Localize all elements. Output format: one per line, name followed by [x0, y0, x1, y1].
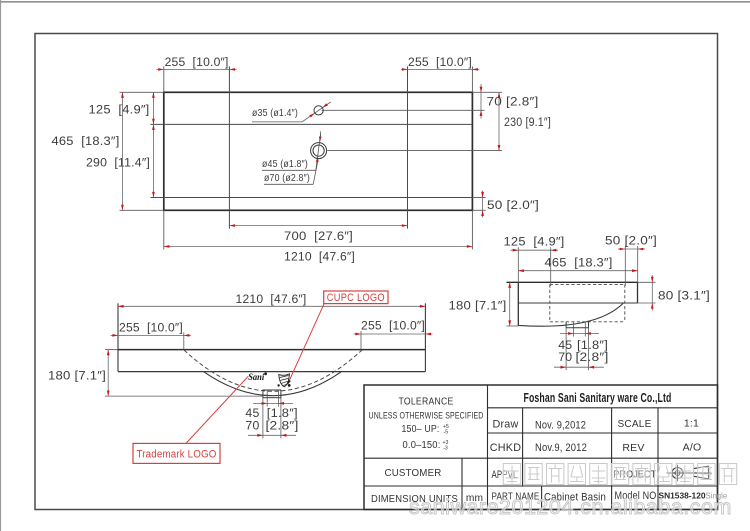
faucet leader diagonal [302, 102, 331, 122]
vertical divider after Draw [522, 408, 524, 486]
side dim 465 line [518, 270, 637, 272]
svg-text:70 [2.8″]: 70 [2.8″] [487, 95, 539, 109]
title block texts [369, 390, 728, 505]
side 125 right ext [550, 247, 552, 286]
projection symbol target outer circle [672, 468, 683, 479]
side hidden bowl dashed left [549, 284, 551, 321]
dim 125/290 line [152, 92, 154, 197]
svg-text:290 [11.4″]: 290 [11.4″] [86, 156, 150, 170]
svg-text:SCALE: SCALE [618, 418, 652, 430]
svg-text:125 [4.9″]: 125 [4.9″] [89, 103, 150, 117]
title block outer border [364, 385, 718, 510]
side drain box [565, 322, 567, 328]
CUPC shield mark [279, 374, 290, 387]
side hidden bowl dashed right [624, 284, 626, 321]
svg-text:465 [18.3″]: 465 [18.3″] [545, 255, 613, 269]
watermarks [409, 464, 737, 520]
dim 255 top-left line [157, 68, 237, 70]
shield bottom dots [277, 384, 279, 386]
trademark registered circle [264, 372, 267, 375]
svg-text:REV: REV [622, 442, 644, 454]
side 80 ext lines [638, 281, 656, 283]
svg-text:A/O: A/O [683, 442, 702, 454]
front dim 255 right line [354, 333, 433, 335]
dim 700 line [229, 225, 407, 227]
front 255 right ext [360, 331, 362, 350]
svg-text:70: 70 [558, 350, 572, 364]
photo top edge [0, 1, 750, 3]
projection symbol vertical crosshair [677, 465, 679, 481]
side dim 50 line [618, 248, 645, 250]
side dim 180 line [509, 282, 511, 326]
extension line above left corner [163, 66, 165, 92]
svg-text:ø45 (ø1.8″): ø45 (ø1.8″) [262, 159, 308, 170]
side 180 bottom extension [507, 325, 519, 327]
front bowl visible bottom (solid arc) [204, 372, 341, 396]
Trademark LOGO red box [133, 443, 220, 463]
drain o70 leader [313, 161, 318, 184]
svg-text:150– UP:: 150– UP: [402, 424, 440, 435]
projection symbol [667, 465, 712, 481]
front dim 180 line [107, 350, 109, 397]
extension line below right corner [471, 210, 473, 249]
plan holes and leaders [252, 102, 331, 184]
svg-text:TOLERANCE: TOLERANCE [399, 395, 454, 407]
side dim 70 line [554, 366, 604, 368]
extension line below left corner [163, 210, 165, 249]
front bottom extension line (180 dim) [105, 395, 263, 397]
side left edge extension up [517, 247, 519, 282]
title block horizontal line under company header [488, 407, 718, 409]
projection symbol centerline [667, 472, 712, 474]
projection symbol cone [694, 466, 709, 479]
svg-text:saniware201204.cn.alibaba.com: saniware201204.cn.alibaba.com [409, 495, 732, 519]
faucet hole circle o35 [314, 106, 323, 115]
CUPC red leader line [288, 304, 324, 384]
dim 70 right line [480, 84, 482, 119]
vertical divider before values [657, 408, 659, 510]
svg-text:700 [27.6″]: 700 [27.6″] [284, 229, 353, 243]
faucet hole centerline [322, 109, 485, 111]
front right edge [424, 303, 426, 371]
drain hole outer circle o70 [311, 143, 327, 159]
svg-text:0.0–150:: 0.0–150: [403, 440, 441, 451]
side right edge [637, 282, 639, 303]
svg-text:-3: -3 [443, 446, 448, 452]
logo callouts [133, 291, 388, 463]
plan view: basin top outline [164, 92, 473, 210]
front dim 45 line [253, 402, 293, 404]
svg-text:Foshan Sani Sanitary ware Co.,: Foshan Sani Sanitary ware Co.,Ltd [524, 390, 672, 405]
svg-text:ø35 (ø1.4″): ø35 (ø1.4″) [252, 108, 298, 119]
svg-text:50 [2.0″]: 50 [2.0″] [605, 234, 657, 248]
front 255 left ext [183, 332, 185, 349]
drain top tick [319, 131, 321, 138]
front view group [105, 303, 425, 397]
dim 50 right line [482, 191, 484, 218]
drain hole inner circle o45 [313, 145, 324, 156]
svg-text:80 [3.1″]: 80 [3.1″] [658, 289, 710, 303]
side 50 left ext [624, 246, 626, 286]
side dim 70 ext lines [565, 328, 567, 370]
front dim 45 ext lines [266, 398, 268, 407]
line under Draw row [488, 432, 718, 434]
front bowl hidden rim (dashed arc) [184, 350, 362, 391]
extension line above right corner [471, 66, 473, 92]
ledge line extension right [472, 197, 485, 199]
svg-text:1210 [47.6″]: 1210 [47.6″] [236, 292, 307, 306]
svg-text:1:1: 1:1 [684, 418, 699, 430]
top edge extension right [472, 91, 502, 93]
dim 230 line [498, 92, 500, 150]
vertical divider before SCALE [611, 408, 613, 510]
front left edge [117, 303, 119, 371]
front dim 70 ext lines [262, 398, 264, 439]
dim 255 top-right line [401, 68, 479, 70]
side apron bottom line [518, 302, 637, 304]
svg-text:-5: -5 [443, 430, 448, 436]
side view group [507, 246, 638, 328]
svg-text:Nov.9, 2012: Nov.9, 2012 [535, 442, 587, 454]
svg-text:255 [10.0″]: 255 [10.0″] [165, 55, 229, 69]
faucet label underline [252, 121, 302, 123]
vertical main divider [487, 385, 489, 510]
side dim 80 line [651, 275, 653, 311]
line under APPVL/customer row [364, 485, 718, 487]
svg-text:1210 [47.6″]: 1210 [47.6″] [284, 250, 355, 264]
plan dimensions [52, 55, 552, 264]
drain o70 underline [264, 183, 313, 185]
front view slab outline [118, 349, 425, 351]
side bottom shell curve [518, 303, 623, 326]
front dim 1210 line [118, 305, 425, 307]
watermark chinese company name (stylized) [503, 464, 736, 485]
plan bottom edge extension left [120, 209, 164, 211]
side left edge [517, 282, 519, 326]
bottom edge extension right [472, 209, 485, 211]
CUPC LOGO red box [324, 291, 388, 304]
side dim 45 ext lines [573, 328, 575, 337]
drain o45 underline [262, 169, 316, 171]
line under CHKD/tolerance row [364, 457, 718, 459]
dim 1210 line [164, 245, 473, 247]
vertical divider after PART NAME [541, 486, 543, 510]
svg-text:CUPC LOGO: CUPC LOGO [327, 292, 385, 304]
vertical divider mm cell [461, 458, 463, 509]
svg-text:50 [2.0″]: 50 [2.0″] [487, 198, 539, 212]
CUPC leader arrowhead [287, 380, 291, 385]
plan bowl left edge / extension [228, 66, 230, 228]
svg-text:Draw: Draw [493, 419, 519, 431]
svg-text:180 [7.1″]: 180 [7.1″] [449, 299, 507, 313]
front dimensions [48, 292, 432, 439]
svg-text:70: 70 [245, 418, 259, 432]
svg-text:465 [18.3″]: 465 [18.3″] [52, 134, 120, 148]
side dim 125 line [511, 249, 559, 251]
svg-text:UNLESS OTHERWISE SPECIFIED: UNLESS OTHERWISE SPECIFIED [369, 411, 484, 421]
svg-text:[2.8″]: [2.8″] [576, 350, 609, 364]
svg-text:CUSTOMER: CUSTOMER [385, 467, 442, 479]
side hidden bowl dashed top [550, 283, 625, 285]
front dim 70 line [248, 434, 296, 436]
drain o45 leader [316, 134, 321, 171]
front ext left above [117, 303, 119, 349]
plan top edge extension left [120, 91, 164, 93]
photo left edge [0, 0, 2, 531]
svg-text:[2.8″]: [2.8″] [266, 418, 299, 432]
plan bowl right edge / extension [407, 66, 409, 228]
svg-text:Trademark LOGO: Trademark LOGO [137, 448, 217, 460]
plan inner ledge line (125mm from top) [150, 123, 472, 125]
plan inner ledge line (50mm above bottom) [150, 197, 472, 199]
front drain box [263, 390, 281, 398]
projection symbol target inner circle [675, 471, 680, 476]
side hidden bowl dashed bottom [550, 321, 625, 323]
dim 465 line [121, 92, 123, 210]
plan view group [120, 66, 503, 249]
svg-text:255 [10.0″]: 255 [10.0″] [119, 320, 183, 334]
side view top edge [507, 281, 638, 283]
side dim 45 line [560, 333, 599, 335]
svg-text:255 [10.0″]: 255 [10.0″] [408, 55, 472, 69]
side dimensions [449, 234, 711, 371]
front dim 255 left line [111, 334, 192, 336]
svg-text:Nov. 9,2012: Nov. 9,2012 [535, 419, 586, 431]
svg-text:255 [10.0″]: 255 [10.0″] [361, 319, 425, 333]
svg-text:180 [7.1″]: 180 [7.1″] [48, 368, 106, 382]
svg-text:CHKD: CHKD [490, 442, 521, 454]
Trademark red leader line [186, 376, 248, 443]
drain centerline [327, 150, 502, 152]
svg-text:125 [4.9″]: 125 [4.9″] [504, 235, 565, 249]
title block lines [364, 385, 718, 510]
side right edge extension up [637, 246, 639, 282]
svg-text:230 [9.1″]: 230 [9.1″] [504, 115, 551, 129]
svg-text:ø70 (ø2.8″): ø70 (ø2.8″) [264, 173, 310, 184]
svg-text:Sani: Sani [248, 372, 264, 382]
